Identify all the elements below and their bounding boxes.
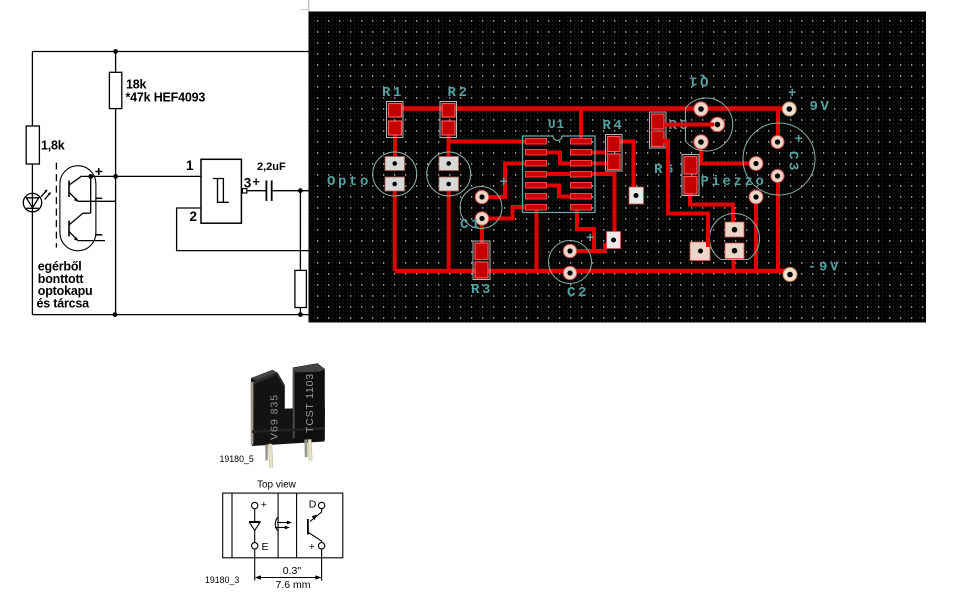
opto circle 1: [373, 152, 417, 196]
wire 9V to C3 plus: [776, 107, 780, 141]
traces: [390, 107, 788, 272]
transistor QP circle: [710, 214, 760, 260]
component outline circles: [373, 98, 815, 284]
wire collector: [310, 509, 322, 522]
node resistor / bottom rail: [298, 312, 303, 317]
pcb board background: [309, 12, 927, 323]
dimension extension lines: [254, 549, 256, 581]
svg-text:+: +: [253, 175, 260, 189]
phototransistor Q-B: [68, 221, 70, 237]
light arrow 2: [275, 527, 287, 529]
wire U1 internal 1: [547, 153, 572, 164]
capacitor C2 pads: [563, 244, 577, 280]
svg-text:18k: 18k: [126, 78, 147, 92]
wire R6 to QP: [690, 192, 733, 226]
node emitter / bottom rail: [113, 312, 118, 317]
capacitor 2,2uF: [265, 180, 267, 201]
wire collector rail to gate pin1: [80, 175, 201, 177]
svg-text:-9V: -9V: [808, 260, 841, 276]
optocoupler U-opto body: [60, 166, 96, 251]
wire cathode: [254, 531, 256, 543]
svg-text:C2: C2: [567, 285, 589, 301]
gate output bubble: [242, 189, 246, 193]
opto photo right tower top sheen: [293, 364, 325, 373]
resistor 18k: [115, 52, 117, 73]
capacitor C3 circle: [743, 123, 815, 195]
resistor R2 pads: [440, 102, 457, 138]
opto photo pin left front: [268, 444, 273, 468]
svg-text:+: +: [788, 86, 799, 102]
transistor base bar: [307, 519, 309, 535]
svg-text:és tárcsa: és tárcsa: [37, 297, 91, 311]
wire R5 bottom to via: [663, 141, 708, 247]
svg-text:U1: U1: [548, 118, 565, 132]
svg-text:*47k HEF4093: *47k HEF4093: [126, 91, 206, 105]
light arrow 1: [277, 522, 289, 524]
hysteresis symbol: [213, 179, 224, 203]
opto2 connector pads: [439, 157, 459, 192]
wire QP to rail: [732, 255, 736, 271]
light arrow heads: [287, 521, 292, 525]
dimension arrow heads: [255, 575, 261, 579]
node top rail / 18k: [113, 49, 118, 54]
svg-text:3: 3: [244, 176, 252, 191]
wire C1 plus to U1 pin: [482, 164, 527, 198]
svg-text:TCST 1103: TCST 1103: [304, 373, 316, 433]
wire piezo pad to rail: [754, 198, 758, 271]
node 18k / pin1: [113, 174, 118, 179]
transistor QP pads: [725, 222, 744, 259]
LED arrows: [41, 190, 47, 196]
plus minus marks: [95, 171, 102, 173]
opto1 connector pads: [385, 157, 405, 192]
resistor R4 pads: [606, 135, 623, 172]
svg-text:Piezzo: Piezzo: [701, 174, 767, 190]
transistor pin top circle: [318, 502, 324, 508]
LED pin top circle: [252, 502, 258, 508]
divider line 3: [296, 493, 298, 558]
via pad A: [607, 232, 621, 249]
opto photo base sheen line: [252, 427, 325, 433]
resistor R3 pads: [473, 241, 490, 280]
svg-text:R2: R2: [448, 85, 470, 101]
svg-text:19180_3: 19180_3: [205, 575, 239, 585]
pcb labels: [327, 73, 841, 302]
dimension line: [259, 577, 318, 579]
capacitor C1 pads: [475, 190, 489, 225]
resistor right: [295, 270, 307, 307]
wire 18k node down to rail: [115, 176, 117, 314]
node cap output: [298, 188, 303, 193]
svg-text:R3: R3: [471, 282, 493, 298]
wire resistor to LED: [31, 164, 33, 212]
opto photo notch bevel sheen: [277, 373, 284, 386]
svg-text:E: E: [262, 541, 269, 553]
svg-text:Opto: Opto: [327, 174, 371, 190]
resistor R6 pads: [682, 155, 699, 196]
via pad B: [629, 187, 644, 204]
wire U1 internal 3: [547, 186, 572, 197]
svg-text:+: +: [586, 231, 597, 247]
wire emitter A: [78, 200, 116, 202]
wire U1 pin8 to C2: [577, 210, 594, 251]
opto photo left side highlight: [251, 382, 254, 445]
wire R5 bottom via over label: [663, 141, 708, 247]
opto photo right tower inner edge highlight: [293, 369, 295, 439]
IC U1 footprint: [523, 136, 596, 213]
gate U1 HEF4093: [201, 159, 241, 223]
svg-text:0.3": 0.3": [283, 565, 302, 577]
divider line 2: [277, 493, 279, 558]
wire C2 to via: [570, 243, 605, 251]
collector arrow head: [312, 515, 317, 521]
wire bottom rail: [32, 314, 309, 316]
wire node down to resistor: [299, 191, 301, 271]
wire U1 internal 2: [547, 172, 572, 176]
wire cap to pcb: [272, 190, 312, 192]
optocoupler dashed line: [55, 163, 57, 248]
opto photo body base: [252, 408, 326, 447]
svg-text:+: +: [261, 499, 267, 511]
wire C1 minus to U1 pin: [482, 207, 527, 219]
capacitor C1 circle: [460, 187, 502, 229]
svg-text:R6: R6: [654, 162, 676, 178]
svg-text:2,2uF: 2,2uF: [257, 161, 286, 173]
LED D1: [23, 193, 41, 211]
wire R1 to Opto pad: [393, 128, 397, 160]
wire anode: [254, 509, 256, 521]
wire -9V bottom rail: [395, 269, 788, 274]
wire U1 gnd to rail: [535, 210, 539, 271]
resistor R5 pads: [650, 112, 667, 148]
wire left vertical: [31, 52, 33, 127]
wire emitter: [309, 533, 322, 543]
divider line 1: [231, 493, 233, 558]
svg-text:V69 835: V69 835: [269, 394, 281, 440]
svg-text:Top view: Top view: [257, 480, 297, 491]
wire LED to bottom rail: [31, 212, 33, 315]
svg-text:19180_5: 19180_5: [220, 454, 254, 464]
via pad C: [690, 242, 710, 261]
node collector junction: [88, 174, 93, 179]
opto photo left tower: [251, 370, 285, 414]
transistor Q1 pads: [694, 102, 725, 149]
svg-text:Q1: Q1: [686, 73, 708, 89]
svg-text:9V: 9V: [810, 99, 832, 115]
wire U1 pin11 to via: [592, 174, 615, 233]
-9V pad: [783, 268, 797, 282]
wire C3 minus to rail: [776, 177, 780, 271]
wire R5 to Q1 over label: [664, 123, 714, 127]
opto photo pin left rear: [265, 445, 268, 461]
diode triangle: [250, 523, 260, 531]
svg-text:2: 2: [190, 209, 197, 224]
junction dots: [88, 49, 303, 317]
wire pin2 feedback loop: [177, 208, 312, 251]
wire opto1 to -9V rail: [393, 184, 397, 271]
wire base link: [90, 176, 92, 213]
transistor Q1 circle: [686, 98, 733, 151]
piezo connector pads: [749, 157, 763, 205]
capacitor C3 pads: [771, 135, 784, 182]
svg-text:+: +: [500, 175, 511, 191]
light arc: [275, 518, 277, 531]
svg-text:1,8k: 1,8k: [41, 139, 65, 153]
wire R2 to U1 pin1: [449, 133, 528, 142]
svg-text:C1: C1: [460, 217, 482, 233]
schematic labels: [37, 78, 287, 311]
package outline: [223, 493, 343, 558]
wire top rail: [32, 51, 309, 53]
svg-text:+: +: [795, 132, 806, 148]
wire R4 to via: [614, 142, 634, 192]
opto photo left tower top sheen: [251, 370, 277, 381]
svg-text:R1: R1: [382, 85, 404, 101]
opto photo pin right front: [308, 440, 312, 461]
phototransistor Q-A: [68, 181, 70, 198]
transistor pin bottom circle: [318, 543, 324, 549]
opto photo right tower: [293, 363, 325, 442]
resistor R1 pads: [387, 102, 404, 138]
wire emitter B stub: [78, 240, 105, 242]
wire U1 pin13 stub: [592, 162, 609, 166]
wire opto2 to -9V rail: [447, 184, 451, 271]
wire rail to U1 pin14: [579, 107, 583, 142]
diode cathode bar: [249, 521, 260, 523]
capacitor C2 circle: [549, 241, 592, 284]
wire C1 minus to R3: [480, 219, 484, 250]
svg-text:7.6 mm: 7.6 mm: [276, 579, 311, 591]
wire U1 pin12 stub: [592, 151, 609, 155]
svg-text:D: D: [309, 498, 317, 510]
svg-text:+: +: [309, 541, 315, 553]
pcb corner artifact lines: [308, 0, 310, 12]
wire +9V top rail: [390, 106, 786, 111]
LED pin bottom circle: [252, 543, 258, 549]
opto circle 2: [427, 152, 471, 196]
9V pad: [782, 102, 796, 116]
resistor 1,8k: [26, 126, 39, 164]
svg-text:C3: C3: [785, 151, 801, 173]
wire gate out to capacitor: [247, 190, 267, 192]
wire Q1 emitter to pad: [701, 142, 754, 164]
svg-text:R4: R4: [603, 118, 625, 134]
opto photo pin right rear: [304, 440, 307, 458]
wire R2 to Opto pad: [447, 128, 451, 160]
wire R5 to Q1 base: [664, 123, 714, 127]
svg-text:1: 1: [186, 158, 194, 173]
